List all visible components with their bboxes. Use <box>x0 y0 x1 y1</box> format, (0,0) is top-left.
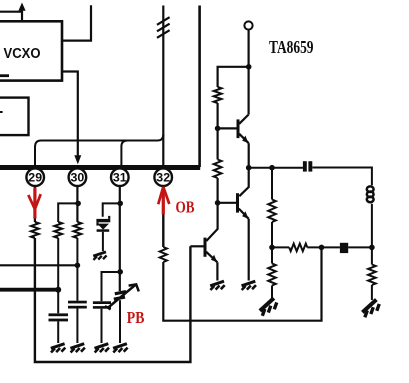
svg-text:OB: OB <box>176 198 195 217</box>
svg-text:31: 31 <box>113 171 127 185</box>
svg-text:PB: PB <box>127 308 145 327</box>
svg-text:32: 32 <box>156 171 170 185</box>
svg-text:29: 29 <box>28 171 42 185</box>
svg-text:30: 30 <box>71 171 85 185</box>
svg-text:VCXO: VCXO <box>4 45 41 62</box>
svg-text:TA8659: TA8659 <box>269 37 314 57</box>
